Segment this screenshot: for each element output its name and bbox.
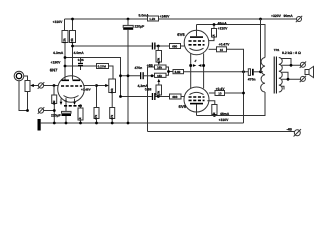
resistor R6 (x96.5 leg) bbox=[96, 86, 98, 108]
capacitor C5 470n bbox=[140, 72, 141, 79]
speaker LS1 bbox=[305, 70, 309, 75]
wire bias rail bbox=[148, 131, 295, 133]
terminal pad (circle-slash) on ground run bbox=[38, 108, 43, 113]
V3 plate bbox=[190, 103, 203, 105]
svg-text:10k: 10k bbox=[156, 90, 160, 95]
V3 cathode lead bbox=[209, 92, 215, 94]
wire +320V drop to CT bbox=[260, 19, 262, 72]
resistor R5 (trimmer lower leg) bbox=[110, 108, 115, 119]
V1 cathode bbox=[64, 96, 79, 99]
pot P4 (lower balance) bbox=[157, 95, 159, 97]
svg-text:1k: 1k bbox=[212, 34, 216, 38]
transformer TR1 primary bbox=[261, 58, 265, 93]
tube V1 6N7 envelope bbox=[58, 76, 85, 103]
svg-text:+310V: +310V bbox=[219, 118, 230, 122]
resistor R13 680 (grid stopper bottom) bbox=[170, 94, 182, 99]
potentiometer P1 (volume) bbox=[25, 81, 30, 92]
capacitor C4 (coupling top) bbox=[152, 43, 153, 50]
TR1 secondary bbox=[279, 58, 282, 93]
wire grid 6N7 bbox=[44, 85, 97, 87]
wire ground rail bbox=[41, 122, 244, 124]
svg-text:1.2k: 1.2k bbox=[149, 17, 155, 21]
svg-text:+1.45V: +1.45V bbox=[81, 87, 91, 91]
wire B+ rail top bbox=[65, 18, 297, 20]
V2 screen tap bbox=[209, 37, 214, 41]
svg-text:220µF: 220µF bbox=[135, 24, 145, 28]
svg-text:10: 10 bbox=[220, 48, 224, 52]
svg-text:220µF: 220µF bbox=[51, 114, 61, 118]
junction dots on B+ rail bbox=[71, 18, 74, 21]
V2 cathode lead bbox=[209, 48, 217, 50]
svg-text:4.0mA: 4.0mA bbox=[74, 51, 85, 55]
svg-text:48mA: 48mA bbox=[220, 112, 230, 116]
svg-text:1M: 1M bbox=[52, 100, 56, 105]
svg-text:4.3mA: 4.3mA bbox=[53, 51, 64, 55]
svg-text:470n: 470n bbox=[248, 77, 256, 81]
wire coupling low (y96.5) bbox=[121, 96, 152, 98]
svg-text:8.2 kΩ : 8 Ω: 8.2 kΩ : 8 Ω bbox=[282, 51, 301, 55]
V2 cathode bbox=[190, 48, 204, 50]
wire coupling mid (y75.8) bbox=[121, 75, 141, 77]
svg-text:+310V: +310V bbox=[218, 27, 229, 31]
wire coupling top (y46) bbox=[73, 45, 152, 47]
svg-text:680: 680 bbox=[172, 45, 177, 49]
wire feedback y72 bbox=[184, 71, 250, 73]
terminal bias (circle-slash) bbox=[294, 130, 300, 136]
ground bar (chassis) bbox=[38, 119, 41, 131]
svg-text:0.68: 0.68 bbox=[145, 87, 152, 91]
terminal speaker + (circle-slash) bbox=[300, 62, 305, 67]
svg-text:+0.4V: +0.4V bbox=[216, 87, 226, 91]
svg-text:TR1: TR1 bbox=[274, 48, 280, 52]
resistor R10 16k (upper) bbox=[155, 65, 167, 69]
svg-text:48mA: 48mA bbox=[218, 21, 228, 25]
V1 filament arrows bbox=[60, 99, 62, 104]
V3 grids dashed bbox=[189, 97, 205, 100]
input jack J1 bbox=[14, 71, 24, 81]
svg-text:+310V: +310V bbox=[53, 20, 64, 24]
svg-text:6V6: 6V6 bbox=[179, 104, 187, 109]
V2/V3 filament lines bbox=[191, 53, 204, 88]
V3 cathode (top arc) bbox=[190, 92, 204, 94]
resistor R17 screen lower bbox=[212, 105, 217, 115]
wire 16k join bbox=[166, 67, 173, 75]
tube V3 6V6 (lower, inverted) envelope bbox=[184, 87, 209, 112]
terminal pad (circle-slash) on wiper bbox=[38, 83, 43, 88]
svg-text:22k: 22k bbox=[70, 38, 74, 43]
svg-text:680: 680 bbox=[172, 95, 177, 99]
secondary taps bbox=[282, 59, 301, 90]
svg-text:+0.47V: +0.47V bbox=[219, 42, 231, 46]
V3 screen tap bbox=[207, 101, 215, 105]
V2 grids dashed bbox=[189, 41, 205, 45]
resistor R9 680 (grid stopper top) bbox=[170, 44, 181, 49]
V1 grid (dashed) bbox=[61, 85, 82, 87]
svg-text:+190V: +190V bbox=[51, 60, 62, 64]
svg-text:10: 10 bbox=[218, 92, 222, 96]
svg-text:-f: -f bbox=[65, 99, 67, 103]
svg-text:+320V: +320V bbox=[271, 14, 282, 18]
terminal speaker - (circle-slash) bbox=[300, 76, 305, 81]
trimmer P2 (preset with arrow) bbox=[109, 79, 116, 93]
svg-text:6.8k: 6.8k bbox=[175, 70, 181, 74]
resistor R15 screen upper bbox=[212, 29, 217, 38]
svg-text:0.27M: 0.27M bbox=[98, 65, 107, 69]
tube V2 6V6 (upper) envelope bbox=[184, 30, 209, 55]
resistor R14 10 bbox=[217, 47, 227, 52]
resistor R12 6.8k (tail) bbox=[173, 70, 184, 74]
resistor R3 1.2k (B+ dropper) bbox=[148, 16, 159, 21]
svg-text:6V6: 6V6 bbox=[177, 32, 185, 37]
resistor R7 grid leak bbox=[53, 86, 55, 111]
pot P3 (upper balance) bbox=[157, 46, 159, 51]
resistor R16 10 bbox=[215, 91, 225, 96]
capacitor C1 220uF (PSU filter) bbox=[127, 19, 129, 25]
wire plate A (y57.5) bbox=[65, 58, 121, 97]
terminal B+ (circle-slash) bbox=[297, 17, 302, 22]
svg-text:50k: 50k bbox=[110, 88, 114, 93]
resistor R8 (shield leg) bbox=[80, 106, 82, 108]
V2 plate bbox=[190, 36, 203, 38]
svg-text:16k: 16k bbox=[157, 66, 162, 70]
svg-text:90mA: 90mA bbox=[284, 14, 294, 18]
wiper arrow of P1 bbox=[32, 85, 38, 87]
dashed shield link bbox=[64, 105, 80, 107]
V2 plate line y24.5 bbox=[197, 25, 266, 58]
svg-text:16k: 16k bbox=[157, 74, 162, 78]
svg-text:470n: 470n bbox=[135, 66, 143, 70]
V3 plate line y115.5 bbox=[197, 92, 266, 116]
wire bias leg x147.5 bbox=[148, 67, 155, 132]
svg-text:+6B: +6B bbox=[147, 64, 154, 68]
capacitor C7 0.68 bbox=[152, 93, 153, 100]
resistor R1 (left plate resistor) bbox=[64, 19, 67, 80]
resistor R11 16k (lower) bbox=[155, 73, 167, 77]
resistor R4 0.27M bbox=[97, 64, 109, 69]
TR1 core bbox=[274, 57, 276, 94]
capacitor C6 470n (to CT) bbox=[248, 69, 250, 76]
svg-text:-4B: -4B bbox=[287, 128, 293, 132]
svg-text:22k: 22k bbox=[63, 38, 67, 43]
resistor R2 (right plate resistor) bbox=[72, 19, 74, 80]
wire plate B (y66) bbox=[65, 65, 97, 67]
svg-text:-f: -f bbox=[194, 59, 196, 63]
svg-text:6N7: 6N7 bbox=[50, 68, 58, 73]
V1 plates bbox=[62, 80, 70, 82]
V1 cathode lead bbox=[65, 98, 67, 112]
svg-text:+245V: +245V bbox=[160, 14, 171, 18]
